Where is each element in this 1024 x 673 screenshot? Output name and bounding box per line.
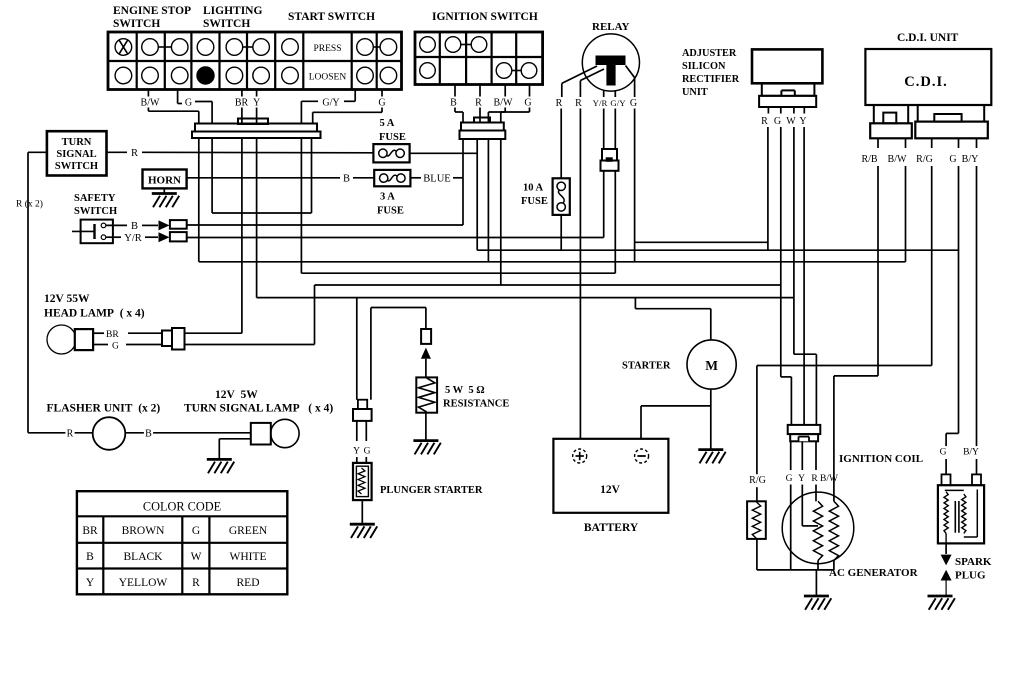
svg-text:BROWN: BROWN	[122, 525, 166, 537]
SW2 row divider	[415, 56, 543, 58]
label B/Y (coil)	[962, 446, 981, 459]
svg-text:3 A: 3 A	[380, 192, 395, 203]
svg-text:HORN: HORN	[148, 175, 181, 187]
wire CDI R/B down	[877, 166, 879, 376]
svg-text:Y: Y	[86, 577, 95, 589]
svg-text:TURN SIGNAL LAMP ( x 4): TURN SIGNAL LAMP ( x 4)	[184, 403, 333, 415]
wire rectifier G down	[780, 127, 782, 377]
spark plug ground	[928, 595, 953, 598]
svg-text:SIGNAL: SIGNAL	[56, 149, 96, 160]
coil core lines	[954, 501, 956, 533]
svg-text:SWITCH: SWITCH	[74, 206, 117, 217]
R/G resistor box	[747, 501, 766, 539]
color code table column dividers	[102, 516, 104, 594]
wire rectifier R down to bus	[767, 127, 769, 250]
svg-text:G/Y: G/Y	[322, 98, 339, 109]
svg-text:Y: Y	[253, 98, 260, 109]
svg-text:PRESS: PRESS	[314, 44, 342, 54]
wire G to coil pin	[945, 459, 947, 474]
svg-text:COLOR CODE: COLOR CODE	[143, 500, 221, 514]
R/G resistor zigzag	[752, 502, 760, 539]
svg-text:IGNITION COIL: IGNITION COIL	[839, 453, 923, 465]
svg-text:GREEN: GREEN	[229, 525, 268, 537]
starter motor circle	[687, 340, 736, 389]
SW2 bottom row contact circles	[420, 63, 436, 79]
R/G resistor label	[748, 474, 768, 487]
svg-text:B/W: B/W	[820, 474, 838, 484]
wire plunger G bridge	[370, 308, 372, 400]
svg-text:LIGHTING: LIGHTING	[203, 5, 262, 17]
3A fuse	[374, 170, 410, 186]
CDI left connector notch	[883, 113, 896, 124]
wire plunger to ground	[361, 500, 363, 524]
coil left winding	[944, 492, 948, 534]
svg-text:G: G	[630, 98, 637, 109]
arrow Y/R (connector)	[159, 232, 170, 242]
svg-text:LOOSEN: LOOSEN	[309, 73, 347, 83]
svg-text:SWITCH: SWITCH	[113, 18, 160, 30]
safety switch contact upper	[101, 223, 106, 228]
wire R to flasher	[28, 432, 93, 434]
color code table outer box	[77, 491, 287, 594]
ignition switch SW2 body	[415, 32, 543, 85]
connector pin wire G/Y down	[300, 138, 302, 273]
relay pin wire G down	[634, 78, 636, 97]
SW1 bottom row contact circles	[115, 67, 132, 84]
svg-text:R/B: R/B	[861, 154, 877, 165]
rectifier connector middle	[762, 83, 815, 96]
connector pin wire G down to jumper	[211, 138, 213, 213]
relay pin wire G/Y upper	[614, 91, 616, 97]
svg-text:R: R	[811, 474, 818, 484]
plunger pin wires lower	[356, 457, 358, 463]
SW1 X-circle (engine stop contact)	[119, 40, 127, 54]
wire to starter M	[710, 309, 712, 340]
generator R wire	[815, 485, 817, 502]
turn signal lamp ground	[207, 458, 232, 461]
svg-text:Y/R: Y/R	[593, 98, 608, 108]
wire G/Y to bus	[614, 171, 616, 273]
svg-text:W: W	[191, 551, 202, 563]
svg-text:BR: BR	[106, 330, 119, 340]
svg-text:B/W: B/W	[494, 98, 513, 109]
5A fuse	[373, 144, 409, 162]
head lamp connector	[162, 331, 172, 347]
AC generator circle	[782, 492, 854, 564]
svg-text:G: G	[112, 342, 119, 352]
relay pin wire Y/R upper	[603, 91, 605, 97]
relay pin wire R1 upper	[561, 83, 563, 97]
svg-text:G: G	[185, 98, 192, 109]
wire G jog to connector	[195, 101, 212, 103]
flasher unit circle	[93, 417, 126, 450]
SW1 filled contact dot	[197, 67, 214, 84]
wire R1 to 10A fuse	[560, 109, 562, 179]
CDI pin stubs	[877, 138, 879, 148]
plunger connector pin wires	[356, 421, 358, 441]
wire Y/R to bus	[603, 171, 605, 238]
svg-text:B/W: B/W	[141, 98, 160, 109]
generator winding bottoms	[817, 561, 819, 570]
wire CDI G down	[958, 166, 960, 433]
wire horn to B label	[187, 177, 340, 179]
wire resistor to ground	[425, 413, 427, 441]
svg-text:ENGINE STOP: ENGINE STOP	[113, 5, 191, 17]
svg-text:BR: BR	[235, 98, 249, 109]
svg-text:R: R	[67, 429, 74, 440]
relay T-stem	[606, 65, 615, 86]
svg-text:Y: Y	[353, 447, 360, 457]
turn signal lamp bulb	[271, 419, 299, 447]
svg-text:TURN: TURN	[62, 137, 92, 148]
svg-text:Y: Y	[798, 474, 805, 484]
battery box	[553, 439, 668, 513]
wire lamp BR stub	[93, 332, 104, 334]
svg-text:B/Y: B/Y	[963, 448, 979, 458]
wire contact B to label	[106, 224, 127, 226]
wire plunger Y from bus	[356, 298, 358, 400]
safety switch contact lower	[101, 235, 106, 240]
spark plug arrow down	[941, 555, 952, 566]
wire Y/R label to arrow	[145, 236, 158, 238]
wire B/W jog to connector	[147, 108, 149, 112]
svg-text:FLASHER UNIT (x 2): FLASHER UNIT (x 2)	[47, 403, 161, 415]
svg-text:STARTER: STARTER	[622, 361, 671, 372]
wire flasher to lamp	[125, 432, 251, 434]
wire G/Y pin from SW1	[354, 90, 356, 102]
generator bottom bus	[757, 569, 834, 571]
svg-text:IGNITION SWITCH: IGNITION SWITCH	[432, 11, 538, 23]
wire lamp G to connector	[126, 344, 162, 346]
svg-text:B: B	[343, 174, 350, 185]
wire SW2 pin B/W down	[487, 139, 489, 262]
head lamp socket	[75, 329, 93, 350]
wire G2 pin from SW1	[381, 90, 383, 97]
relay diagonal to G	[626, 66, 635, 78]
rectifier connector notch	[781, 90, 794, 95]
svg-text:G: G	[940, 448, 947, 458]
svg-text:R: R	[761, 116, 768, 127]
wire rectifier Y down	[803, 127, 805, 425]
wire starter branch	[634, 298, 636, 309]
svg-text:ADJUSTER: ADJUSTER	[682, 48, 737, 59]
svg-text:R: R	[575, 98, 582, 109]
wire coil to spark plug	[945, 543, 947, 554]
bus B/W (main)	[199, 261, 906, 263]
generator connector	[788, 425, 821, 434]
horn ground symbol	[152, 192, 177, 195]
coil internal link	[976, 490, 978, 538]
battery + terminal	[573, 449, 587, 463]
wire B/Y to coil pin	[976, 459, 978, 474]
AC generator ground	[804, 595, 829, 598]
switch panel SW1 row divider	[108, 60, 402, 62]
svg-text:PLUG: PLUG	[955, 570, 986, 582]
ignition coil body	[938, 485, 984, 543]
wire CDI R/G down	[931, 166, 933, 366]
generator pin wires upper	[790, 441, 792, 470]
wire rectifier W down	[793, 127, 795, 354]
svg-text:G: G	[378, 98, 385, 109]
svg-text:12V 5W: 12V 5W	[215, 389, 258, 401]
connector box Y/R	[170, 232, 187, 241]
C.D.I. box	[865, 49, 991, 105]
plunger starter box	[353, 463, 372, 500]
coil left winding tail	[945, 533, 947, 543]
svg-text:RESISTANCE: RESISTANCE	[443, 399, 509, 410]
wire contact Y/R to label	[106, 236, 121, 238]
SW2 bottom row contact link	[512, 70, 521, 72]
arrow B (connector)	[159, 220, 170, 230]
svg-text:B: B	[450, 98, 457, 109]
SW2 pin stubs and labels	[454, 85, 456, 97]
color code table row dividers	[77, 542, 287, 544]
wire G jog to ignition coil	[946, 432, 958, 434]
connector pin wire BR down	[241, 138, 243, 333]
relay Y/R-G/Y connector	[602, 149, 617, 161]
wire battery minus to starter	[641, 405, 711, 407]
svg-text:G: G	[364, 447, 371, 457]
svg-text:R (x 2): R (x 2)	[16, 199, 43, 210]
svg-text:SPARK: SPARK	[955, 556, 992, 568]
svg-text:SILICON: SILICON	[682, 61, 726, 72]
wire 5A fuse output	[410, 152, 478, 154]
wire SW2 G jog	[529, 108, 531, 113]
spark plug arrow up	[941, 570, 952, 581]
svg-text:SWITCH: SWITCH	[203, 18, 250, 30]
wire relay G to rectifier R link	[635, 241, 768, 243]
connector pin wire G2 down to jumper	[311, 138, 313, 213]
wire G pin from SW1	[177, 90, 179, 104]
svg-text:UNIT: UNIT	[682, 87, 708, 98]
svg-text:5 A: 5 A	[380, 118, 395, 129]
svg-text:BATTERY: BATTERY	[584, 522, 639, 534]
head lamp bulb circle	[47, 325, 76, 354]
svg-text:G: G	[786, 474, 793, 484]
svg-text:FUSE: FUSE	[377, 206, 404, 217]
wire BR pin from SW1	[241, 90, 243, 97]
relay diagonal to R2	[580, 69, 604, 81]
svg-text:SWITCH: SWITCH	[55, 161, 98, 172]
label G (coil)	[939, 446, 948, 459]
wire Y to connector	[256, 108, 258, 124]
svg-text:G: G	[949, 154, 956, 165]
generator left winding	[813, 501, 822, 560]
coil pin right	[972, 474, 981, 485]
generator Y wire	[801, 485, 803, 526]
svg-text:AC GENERATOR: AC GENERATOR	[829, 567, 919, 579]
plunger connector	[358, 400, 367, 409]
svg-text:PLUNGER STARTER: PLUNGER STARTER	[380, 485, 483, 496]
turn signal lamp ground wire	[219, 438, 251, 440]
turn signal switch box	[47, 131, 107, 175]
wire R/G jog to resistor	[757, 365, 932, 367]
svg-text:BR: BR	[82, 525, 98, 537]
resistance inline fuse box	[421, 329, 431, 344]
coil right winding	[962, 494, 966, 533]
horn ground stem	[163, 188, 165, 193]
wire G2 jog to connector	[381, 108, 383, 113]
wire SW2 pin R down	[476, 139, 478, 250]
bus R (main)	[477, 249, 958, 251]
svg-text:Y: Y	[799, 116, 806, 127]
G jumper wire	[212, 212, 311, 214]
svg-text:RECTIFIER: RECTIFIER	[682, 74, 740, 85]
wire SW2 B/W jog	[504, 108, 506, 113]
svg-text:R: R	[556, 98, 563, 109]
svg-text:RELAY: RELAY	[592, 21, 630, 33]
generator G wire through	[790, 485, 792, 570]
CDI left connector stubs	[873, 105, 875, 123]
svg-text:M: M	[705, 358, 718, 373]
resistance arrow	[421, 348, 431, 359]
color code table header divider	[77, 515, 287, 517]
svg-text:B: B	[145, 429, 152, 440]
svg-text:FUSE: FUSE	[379, 132, 406, 143]
wire BR from connector to riser	[185, 332, 242, 334]
wire lamp BR to connector	[128, 332, 162, 334]
svg-text:G: G	[192, 525, 200, 537]
wire G riser to bus	[314, 285, 316, 345]
bus Y (to rectifier W)	[257, 297, 794, 299]
wire generator to ground	[815, 570, 817, 596]
svg-text:B/Y: B/Y	[962, 154, 979, 165]
SW2 top row contact link	[461, 44, 471, 46]
svg-text:G: G	[774, 116, 781, 127]
rectifier connector bottom bar	[759, 96, 816, 107]
svg-text:R: R	[475, 98, 482, 109]
svg-text:B: B	[86, 551, 94, 563]
svg-text:12V: 12V	[600, 484, 621, 496]
SW2 top row contact circles	[420, 37, 436, 53]
wire spark plug to ground	[945, 581, 947, 597]
SW2 column dividers	[439, 32, 441, 85]
svg-text:BLUE: BLUE	[423, 174, 450, 185]
CDI left connector body	[870, 123, 912, 138]
wire lamp G stub	[93, 344, 108, 346]
wire R from turn signal switch right	[107, 151, 128, 153]
CDI right connector stubs	[917, 105, 919, 122]
bus Y/R (safety to relay)	[187, 237, 604, 239]
SW1 multi-pin connector	[195, 124, 317, 132]
svg-text:B/W: B/W	[888, 154, 907, 165]
svg-text:C.D.I.: C.D.I.	[904, 74, 947, 90]
svg-text:FUSE: FUSE	[521, 196, 548, 207]
generator right winding	[829, 501, 838, 560]
coil pin left	[942, 474, 951, 485]
bus G (lamp to rectifier)	[315, 284, 781, 286]
wire R to 5A fuse	[142, 151, 373, 154]
wire BR to connector	[241, 108, 243, 124]
SW2 connector	[461, 123, 504, 131]
svg-text:RED: RED	[237, 577, 260, 589]
svg-text:R/G: R/G	[916, 154, 933, 165]
relay T-bar	[596, 56, 626, 66]
safety switch lever	[72, 230, 94, 232]
wire SW2 B jog	[454, 108, 456, 113]
wire G/Y jog to connector	[301, 100, 318, 102]
connector pin wire Y down	[256, 138, 258, 298]
coil top link	[945, 489, 964, 491]
wire BLUE to vertical	[453, 177, 463, 179]
svg-text:B: B	[131, 221, 138, 232]
rectifier body	[752, 49, 822, 83]
5W resistor zigzag	[419, 378, 435, 412]
plunger coil zigzag	[358, 468, 365, 494]
wire arrow to resistor	[425, 359, 427, 378]
svg-text:R: R	[131, 148, 138, 159]
wire SW2 pin G down	[500, 139, 502, 285]
svg-text:WHITE: WHITE	[229, 551, 266, 563]
wire B to 3A fuse	[353, 177, 374, 179]
svg-text:SAFETY: SAFETY	[74, 193, 116, 204]
svg-text:5 W 5 Ω: 5 W 5 Ω	[445, 385, 485, 396]
wire R/G resistor to bottom bus	[756, 539, 758, 570]
wire B label to arrow	[142, 224, 158, 226]
svg-text:G: G	[524, 98, 531, 109]
10A fuse	[553, 178, 570, 215]
relay diagonal to R1	[562, 66, 597, 83]
svg-text:Y/R: Y/R	[124, 233, 142, 244]
5W resistor box	[416, 377, 437, 412]
wire SW2 pin B down (blue junction)	[462, 139, 464, 178]
wire Y pin from SW1	[256, 90, 258, 97]
svg-text:C.D.I. UNIT: C.D.I. UNIT	[897, 32, 959, 44]
turn signal lamp socket	[251, 423, 271, 445]
relay pin wire R2 (to battery +)	[579, 81, 581, 98]
starter ground	[698, 448, 723, 451]
svg-text:W: W	[786, 116, 796, 127]
wire 3A fuse to BLUE	[410, 177, 421, 179]
label B (flasher)	[144, 428, 153, 441]
safety switch box	[81, 220, 113, 244]
wire 10A fuse to R bus	[560, 215, 562, 250]
connector box B	[170, 220, 187, 229]
svg-text:HEAD LAMP ( x 4): HEAD LAMP ( x 4)	[44, 308, 145, 320]
rectifier pin stubs	[767, 107, 769, 114]
switch panel SW1 column dividers	[136, 32, 138, 90]
battery - terminal	[635, 449, 649, 463]
plunger ground	[350, 523, 375, 526]
SW1 top row contact circles	[115, 39, 132, 56]
label R (flasher)	[65, 428, 74, 441]
wire CDI B/Y down	[976, 166, 978, 448]
svg-text:BLACK: BLACK	[124, 551, 164, 563]
horn box	[143, 170, 187, 189]
wire SW2 R down	[479, 108, 481, 123]
5W resistor ground	[413, 439, 438, 442]
wire R(x2) left of turn signal switch	[28, 151, 47, 153]
svg-text:YELLOW: YELLOW	[119, 577, 168, 589]
CDI right connector body	[915, 122, 988, 139]
svg-text:12V 55W: 12V 55W	[44, 293, 90, 305]
connector pin wire B/W down	[198, 138, 200, 262]
relay circle	[582, 34, 639, 91]
svg-text:START SWITCH: START SWITCH	[288, 11, 375, 23]
svg-text:G/Y: G/Y	[610, 98, 626, 108]
SW1 top row contact links	[158, 46, 171, 48]
svg-text:10 A: 10 A	[523, 183, 544, 194]
bus G/Y	[301, 272, 615, 274]
CDI right connector notch	[934, 114, 961, 122]
wire CDI B/W down to bus	[905, 166, 907, 262]
svg-text:R: R	[192, 577, 200, 589]
svg-text:R/G: R/G	[749, 475, 766, 486]
wire G from connector to riser	[185, 344, 315, 346]
wire B/W pin from SW1	[147, 90, 149, 97]
switch panel SW1 body	[108, 32, 402, 90]
bus B (safety to blue)	[187, 224, 463, 226]
